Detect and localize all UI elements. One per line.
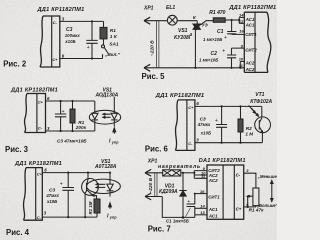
photodiode left (fig3) xyxy=(92,101,98,131)
svg-text:+: + xyxy=(60,181,63,187)
chip DD1 KR1182PM1 (fig6) partial box xyxy=(175,100,194,150)
pin16 stub (fig7) xyxy=(195,193,207,195)
capacitor C1 (fig5) xyxy=(227,19,244,35)
svg-text:ХР1: ХР1 xyxy=(143,6,154,12)
svg-text:VТ1: VТ1 xyxy=(255,92,264,98)
svg-text:16: 16 xyxy=(200,189,205,194)
svg-text:С+: С+ xyxy=(236,206,242,211)
svg-text:ЕL1: ЕL1 xyxy=(166,5,175,11)
wire pin6 top (fig3) xyxy=(46,100,95,102)
capacitor C3 (fig6) xyxy=(216,105,227,143)
svg-text:13: 13 xyxy=(239,19,244,24)
svg-text:УЭ: УЭ xyxy=(202,22,208,27)
bottom rail (fig5) xyxy=(144,67,244,69)
chip DD1 KR1182PM1 (fig5) partial box xyxy=(244,12,271,72)
chip DA1 KR1182PM1 (fig7) box xyxy=(207,165,244,219)
svg-text:С3 47мк×10Б: С3 47мк×10Б xyxy=(57,138,87,143)
svg-text:100мкх: 100мкх xyxy=(65,33,81,38)
pin 9 10 11 riser (fig7) xyxy=(194,171,207,179)
svg-text:47мкх: 47мкх xyxy=(45,193,59,198)
diode VD1 KD209A vertical (fig7) xyxy=(179,173,186,219)
wire pin3 bottom (fig6) xyxy=(195,142,262,144)
svg-text:С-: С- xyxy=(38,125,43,130)
svg-text:Рис. 5: Рис. 5 xyxy=(142,72,166,81)
svg-text:СИТ1: СИТ1 xyxy=(208,195,220,200)
capacitor C3 (fig3) xyxy=(55,100,66,132)
resistor R1 470 (fig5) xyxy=(213,18,239,23)
pin14 stub (fig7) xyxy=(195,207,207,209)
light arrows (fig6) xyxy=(249,105,259,116)
switch SA1 (fig2) xyxy=(102,45,109,59)
svg-text:С+: С+ xyxy=(38,99,44,104)
svg-text:R1 470: R1 470 xyxy=(209,10,225,16)
plug XP1 bottom prong (fig5) xyxy=(144,64,150,71)
svg-text:16: 16 xyxy=(239,29,244,34)
svg-text:ХР1: ХР1 xyxy=(147,159,158,165)
svg-text:АОД130А: АОД130А xyxy=(95,93,119,99)
svg-text:Рис. 4: Рис. 4 xyxy=(6,228,30,237)
svg-text:Рис. 6: Рис. 6 xyxy=(145,145,169,154)
LED of VS1 (fig4) xyxy=(107,172,114,209)
svg-text:упр: упр xyxy=(109,216,117,220)
svg-text:+: + xyxy=(62,109,65,115)
pin tie AC1 (fig5) xyxy=(238,17,244,23)
pin6 wire (fig7) xyxy=(244,206,256,208)
svg-text:10: 10 xyxy=(239,57,244,62)
LED right (fig3) xyxy=(111,97,117,134)
optocoupler VS1 AOT128A oval (fig4) xyxy=(87,179,121,193)
svg-text:нагреватель: нагреватель xyxy=(158,164,201,170)
svg-text:х10Б: х10Б xyxy=(200,130,211,135)
phototransistor of VS1 (fig4) xyxy=(82,172,99,219)
svg-text:КТФ102А: КТФ102А xyxy=(250,99,272,105)
capacitor C2 (fig5) xyxy=(227,48,244,69)
chip DD1 KR1182PM1 (fig4) partial box xyxy=(23,168,42,221)
svg-text:R1: R1 xyxy=(110,28,116,34)
svg-text:С-: С- xyxy=(53,20,58,25)
svg-text:+: + xyxy=(215,118,218,124)
plug XP1 top prong (fig5) xyxy=(144,17,167,24)
heater element (fig7) xyxy=(163,170,181,176)
svg-text:х10Б: х10Б xyxy=(46,199,57,204)
svg-text:ДД1 КР1182ПМ1: ДД1 КР1182ПМ1 xyxy=(10,87,58,93)
svg-text:~220 В: ~220 В xyxy=(148,177,154,193)
connector link lines (fig5) xyxy=(156,21,159,68)
coupling arrows (fig4) xyxy=(96,183,105,188)
svg-text:АС1: АС1 xyxy=(245,17,255,22)
svg-text:АС1: АС1 xyxy=(208,207,218,212)
svg-text:DА1 КР1182ПМ1: DА1 КР1182ПМ1 xyxy=(199,158,246,164)
triac VS1 KU208G (fig5) xyxy=(193,21,213,69)
wire pin3 bottom (fig4) xyxy=(42,216,97,218)
pin3 wire to pot (fig7) xyxy=(244,173,256,188)
svg-text:13: 13 xyxy=(200,210,205,215)
svg-text:1 мк×10Б: 1 мк×10Б xyxy=(199,58,218,63)
svg-text:АС1: АС1 xyxy=(208,213,218,218)
svg-text:АС2: АС2 xyxy=(245,67,255,72)
top wire to chip (fig7) xyxy=(181,172,196,174)
svg-text:С2: С2 xyxy=(211,51,218,57)
pin13 stub (fig7) xyxy=(195,214,207,216)
svg-text:R1 1М: R1 1М xyxy=(88,201,93,214)
svg-text:КУ208Г: КУ208Г xyxy=(174,35,193,41)
svg-text:х10Б: х10Б xyxy=(64,39,75,44)
svg-text:С-: С- xyxy=(188,141,193,146)
resistor R1 1M (fig4) xyxy=(94,199,100,217)
svg-text:Рис. 7: Рис. 7 xyxy=(148,225,171,234)
svg-text:СИТ1: СИТ1 xyxy=(245,32,257,37)
plug XP1 bottom prong (fig7) xyxy=(145,193,162,200)
svg-text:„Меньше”: „Меньше” xyxy=(257,174,277,179)
svg-text:С1 1мк×5Б: С1 1мк×5Б xyxy=(166,219,189,224)
svg-text:АС2: АС2 xyxy=(208,178,218,183)
svg-text:С1: С1 xyxy=(217,29,224,35)
connector link lines (fig7) xyxy=(155,173,157,197)
left drop to bottom rail (fig7) xyxy=(162,197,195,218)
svg-text:ДД1 КР1182ПМ1: ДД1 КР1182ПМ1 xyxy=(14,161,62,167)
wire pin3 bottom (fig3) xyxy=(46,130,95,132)
svg-text:Рис. 3: Рис. 3 xyxy=(5,145,29,154)
capacitor C3 (fig2) xyxy=(86,20,97,59)
svg-text:КД209А: КД209А xyxy=(159,189,178,195)
svg-text:VS1: VS1 xyxy=(178,28,188,34)
svg-text:ДД1 КР1182ПМ1: ДД1 КР1182ПМ1 xyxy=(37,7,85,13)
svg-text:С-: С- xyxy=(236,173,241,178)
coupling arrows (fig3) xyxy=(103,113,111,118)
svg-text:С-: С- xyxy=(37,215,42,220)
svg-text:упр: упр xyxy=(111,141,119,145)
svg-text:~220 В: ~220 В xyxy=(150,40,156,56)
svg-text:+: + xyxy=(222,49,225,55)
lamp EL1 (fig5) xyxy=(167,15,197,25)
svg-text:С+: С+ xyxy=(188,105,194,110)
wire pin3 top (fig2) xyxy=(60,20,104,22)
wire pin6 top (fig6) xyxy=(195,105,262,107)
svg-text:+: + xyxy=(87,45,90,51)
svg-text:А0Т128А: А0Т128А xyxy=(94,164,117,170)
capacitor C1 (fig7) xyxy=(187,193,196,218)
svg-text:„Вкл.”: „Вкл.” xyxy=(104,52,121,58)
svg-text:Рис. 2: Рис. 2 xyxy=(3,60,27,69)
capacitor C3 (fig4) xyxy=(62,172,74,219)
svg-text:14: 14 xyxy=(239,13,244,18)
svg-text:SА1: SА1 xyxy=(109,42,119,48)
svg-text:АС2: АС2 xyxy=(245,61,255,66)
chip DD1 KR1182PM1 (fig3) partial box xyxy=(24,94,45,133)
svg-text:СИТ2: СИТ2 xyxy=(245,48,257,53)
svg-text:47мкх: 47мкх xyxy=(197,122,211,127)
optocoupler VS1 AOD130A oval (fig3) xyxy=(89,110,120,124)
svg-text:ДД1 КР1182ПМ1: ДД1 КР1182ПМ1 xyxy=(155,93,205,99)
svg-text:С+: С+ xyxy=(37,171,43,176)
resistor R1 (fig3) xyxy=(70,100,75,132)
svg-text:+: + xyxy=(224,35,227,41)
direction arrow (fig7) xyxy=(271,181,273,202)
svg-text:С+: С+ xyxy=(52,57,58,62)
svg-text:1 мк×10Б: 1 мк×10Б xyxy=(203,37,222,42)
potentiometer R1 47k (fig7) xyxy=(247,188,259,208)
chip DD1 KR1182PM1 (fig2) partial box xyxy=(40,16,60,67)
svg-text:+: + xyxy=(187,199,190,205)
svg-text:14: 14 xyxy=(200,204,205,209)
svg-text:ДД1 КР1182ПМ1: ДД1 КР1182ПМ1 xyxy=(228,5,276,11)
plug XP1 top prong (fig7) xyxy=(145,169,163,176)
svg-text:АС1: АС1 xyxy=(245,23,255,28)
resistor R1 (fig2) xyxy=(100,21,107,44)
svg-text:R1 47к: R1 47к xyxy=(249,208,265,213)
phototransistor VT1 (fig6) xyxy=(255,106,271,142)
wire pin6 bottom (fig2) xyxy=(60,58,103,60)
wire pin6 top (fig4) xyxy=(42,172,110,174)
svg-text:1 К: 1 К xyxy=(110,34,118,40)
pin10 riser (fig5) xyxy=(239,62,244,69)
label leader C1 (fig7) xyxy=(186,208,191,217)
resistor R2 (fig6) xyxy=(238,105,243,143)
svg-text:1 М: 1 М xyxy=(245,131,253,136)
svg-text:200к: 200к xyxy=(75,125,87,130)
svg-text:R2: R2 xyxy=(246,126,252,131)
